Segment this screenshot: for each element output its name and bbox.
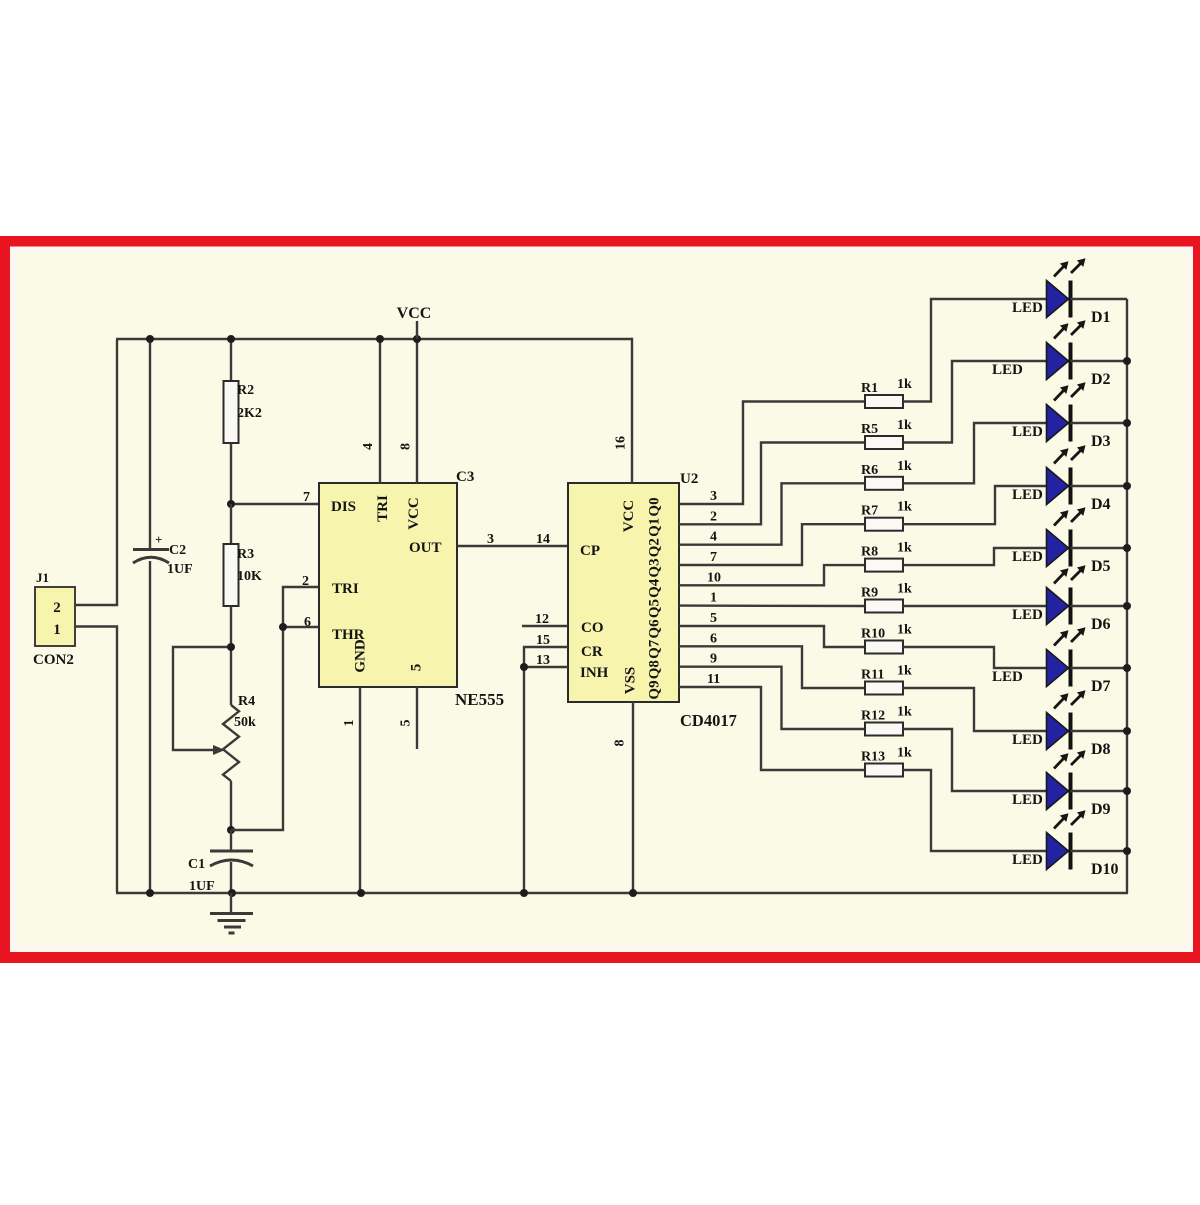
svg-text:D5: D5 bbox=[1091, 558, 1111, 575]
svg-text:R10: R10 bbox=[861, 627, 885, 642]
wire J1 pin 2 to VCC rail bbox=[75, 340, 117, 605]
svg-text:CO: CO bbox=[581, 620, 604, 636]
wire R5 to LED D2 bbox=[903, 361, 1047, 443]
resistor R8 1k bbox=[861, 541, 912, 572]
junction ground rail / CR-INH wire bbox=[520, 889, 528, 897]
svg-text:1k: 1k bbox=[897, 664, 912, 679]
decade counter IC U2 CD4017 bbox=[568, 471, 737, 730]
svg-text:Q9: Q9 bbox=[647, 680, 663, 699]
svg-text:R1: R1 bbox=[861, 381, 878, 396]
wire CD4017 pin to R8 bbox=[679, 565, 865, 585]
junction VCC rail / R2 bbox=[227, 335, 235, 343]
svg-text:J1: J1 bbox=[36, 570, 49, 585]
svg-text:LED: LED bbox=[1012, 424, 1043, 440]
wire R9 to LED D6 bbox=[903, 605, 1047, 607]
resistor R6 1k bbox=[861, 459, 912, 490]
svg-text:Q1: Q1 bbox=[647, 518, 663, 537]
VCC rail (top horizontal bus wire) bbox=[116, 338, 632, 340]
junction cathode bus / LED D7 bbox=[1123, 664, 1131, 672]
svg-text:1k: 1k bbox=[897, 582, 912, 597]
timer IC NE555 (designator C3) bbox=[319, 469, 504, 709]
resistor R1 1k bbox=[861, 377, 912, 408]
svg-text:1k: 1k bbox=[897, 705, 912, 720]
svg-text:2: 2 bbox=[53, 600, 61, 616]
svg-text:9: 9 bbox=[710, 652, 717, 667]
svg-text:R11: R11 bbox=[861, 668, 884, 683]
LED D5 bbox=[1012, 507, 1127, 575]
wire CD4017 pin to R12 bbox=[679, 667, 865, 729]
svg-text:D1: D1 bbox=[1091, 309, 1111, 326]
svg-text:1k: 1k bbox=[897, 377, 912, 392]
wire CD4017 pin 16 to VCC rail bbox=[631, 339, 632, 483]
junction cathode bus / LED D10 bbox=[1123, 847, 1131, 855]
svg-text:2: 2 bbox=[302, 574, 309, 589]
svg-text:R8: R8 bbox=[861, 545, 878, 560]
svg-text:VSS: VSS bbox=[623, 667, 639, 695]
pin number 2 (Q1) bbox=[710, 509, 717, 524]
svg-text:LED: LED bbox=[1012, 852, 1043, 868]
LED D7 bbox=[992, 627, 1127, 695]
svg-text:3: 3 bbox=[710, 489, 717, 504]
pin number 3 (OUT) bbox=[487, 532, 494, 547]
junction R3 / R4 / wiper bbox=[227, 643, 235, 651]
pin number 1 bbox=[342, 720, 357, 727]
svg-text:VCC: VCC bbox=[397, 305, 432, 322]
wire NE555 OUT pin 3 to CD4017 CP pin 14 bbox=[457, 545, 568, 547]
pin number 13 (INH) bbox=[536, 653, 550, 668]
svg-text:2: 2 bbox=[710, 509, 717, 524]
svg-text:R2: R2 bbox=[237, 383, 254, 398]
pin number 9 (Q8) bbox=[710, 652, 717, 667]
pin number 10 (Q4) bbox=[707, 570, 721, 585]
svg-text:5: 5 bbox=[409, 664, 425, 672]
svg-text:R4: R4 bbox=[238, 694, 255, 709]
svg-text:1k: 1k bbox=[897, 746, 912, 761]
wire NE555 pin 4 to VCC rail bbox=[379, 339, 381, 483]
svg-text:TRI: TRI bbox=[332, 581, 359, 597]
pin number 5 (Q6) bbox=[710, 611, 717, 626]
svg-text:13: 13 bbox=[536, 653, 550, 668]
svg-text:CON2: CON2 bbox=[33, 652, 74, 668]
wire CD4017 pin to R11 bbox=[679, 646, 865, 688]
junction VCC rail / C2 bbox=[146, 335, 154, 343]
svg-text:DIS: DIS bbox=[331, 499, 356, 515]
wire R2-R3 node to NE555 DIS pin 7 bbox=[231, 503, 319, 505]
svg-text:Q0: Q0 bbox=[647, 497, 663, 516]
wire CD4017 pin to R6 bbox=[679, 483, 865, 544]
junction ground rail / C1 / ground symbol bbox=[228, 889, 236, 897]
svg-text:C2: C2 bbox=[169, 543, 186, 558]
svg-text:D10: D10 bbox=[1091, 861, 1119, 878]
svg-text:LED: LED bbox=[1012, 732, 1043, 748]
wire CD4017 pin to R13 bbox=[679, 687, 865, 770]
svg-text:D9: D9 bbox=[1091, 801, 1111, 818]
svg-text:LED: LED bbox=[1012, 607, 1043, 623]
junction cathode bus / LED D4 bbox=[1123, 482, 1131, 490]
svg-text:R6: R6 bbox=[861, 463, 878, 478]
junction R4 / C1 / THR net bbox=[227, 826, 235, 834]
resistor R5 1k bbox=[861, 418, 912, 449]
junction cathode bus / LED D8 bbox=[1123, 727, 1131, 735]
wire R6 to LED D3 bbox=[903, 423, 1047, 483]
wire CD4017 pin to R1 bbox=[679, 402, 865, 505]
resistor R11 1k bbox=[861, 664, 912, 695]
svg-text:4: 4 bbox=[710, 530, 717, 545]
svg-text:Q7: Q7 bbox=[647, 639, 663, 659]
wire R13 to LED D10 bbox=[903, 770, 1047, 851]
svg-text:1k: 1k bbox=[897, 541, 912, 556]
resistor R2 2K2 (vertical) bbox=[224, 339, 262, 504]
wire NE555 pin 8 to VCC rail bbox=[416, 339, 418, 483]
capacitor C2 1UF (polarized, across supply) bbox=[133, 339, 193, 893]
junction INH wire bbox=[520, 663, 528, 671]
pin number 7 (DIS) bbox=[303, 490, 310, 505]
pin number 5 bbox=[399, 720, 414, 727]
svg-text:GND: GND bbox=[353, 639, 369, 673]
svg-text:R13: R13 bbox=[861, 750, 885, 765]
connector J1 CON2 bbox=[33, 570, 75, 668]
pin number 4 (Q2) bbox=[710, 530, 717, 545]
CD4017 CO pin 12 stub bbox=[522, 625, 568, 627]
svg-text:7: 7 bbox=[710, 550, 717, 565]
svg-text:4: 4 bbox=[361, 443, 376, 450]
svg-text:6: 6 bbox=[304, 615, 311, 630]
svg-text:8: 8 bbox=[613, 740, 628, 747]
pin number 3 (Q0) bbox=[710, 489, 717, 504]
pin number 16 bbox=[614, 436, 629, 450]
svg-text:1k: 1k bbox=[897, 459, 912, 474]
ground rail (bottom horizontal bus wire) bbox=[116, 892, 1128, 894]
svg-text:OUT: OUT bbox=[409, 540, 442, 556]
svg-text:10K: 10K bbox=[237, 569, 262, 584]
wire R11 to LED D8 bbox=[903, 688, 1047, 731]
wire J1 pin 1 to ground rail bbox=[75, 627, 117, 893]
resistor R10 1k bbox=[861, 623, 912, 654]
LED D3 bbox=[1012, 382, 1127, 450]
potentiometer R4 50k (zigzag with wiper) bbox=[173, 647, 256, 830]
LED D2 bbox=[992, 320, 1127, 388]
pin number 6 (Q7) bbox=[710, 631, 717, 646]
wire CD4017 VSS pin 8 to ground rail bbox=[632, 702, 634, 893]
LED cathode bus (right vertical wire to ground rail) bbox=[1126, 299, 1128, 893]
LED D8 bbox=[1012, 690, 1127, 758]
svg-text:1: 1 bbox=[342, 720, 357, 727]
pin number 8 (VSS) bbox=[613, 740, 628, 747]
svg-text:11: 11 bbox=[707, 672, 720, 687]
pin number 15 (CR) bbox=[536, 633, 550, 648]
junction ground rail / C2 bbox=[146, 889, 154, 897]
wire CD4017 pin to R5 bbox=[679, 443, 865, 525]
junction cathode bus / LED D2 bbox=[1123, 357, 1131, 365]
svg-text:Q6: Q6 bbox=[647, 619, 663, 639]
wire CD4017 pin to R9 bbox=[679, 604, 865, 607]
svg-text:NE555: NE555 bbox=[455, 690, 504, 709]
svg-text:LED: LED bbox=[1012, 487, 1043, 503]
junction cathode bus / LED D9 bbox=[1123, 787, 1131, 795]
svg-text:15: 15 bbox=[536, 633, 550, 648]
svg-text:+: + bbox=[155, 532, 162, 547]
wire CD4017 pin to R10 bbox=[679, 626, 865, 647]
svg-text:LED: LED bbox=[992, 669, 1023, 685]
svg-text:D6: D6 bbox=[1091, 616, 1111, 633]
capacitor C1 1UF bbox=[188, 830, 253, 894]
resistor R7 1k bbox=[861, 500, 912, 531]
svg-text:R12: R12 bbox=[861, 709, 885, 724]
wire R7 to LED D4 bbox=[903, 486, 1047, 524]
svg-text:50k: 50k bbox=[234, 715, 256, 730]
svg-text:LED: LED bbox=[1012, 792, 1043, 808]
svg-text:1k: 1k bbox=[897, 623, 912, 638]
svg-text:D7: D7 bbox=[1091, 678, 1111, 695]
svg-text:TRI: TRI bbox=[375, 495, 391, 522]
pin number 1 (Q5) bbox=[710, 591, 717, 606]
svg-text:LED: LED bbox=[1012, 300, 1043, 316]
svg-text:CR: CR bbox=[581, 644, 603, 660]
pin number 8 bbox=[399, 443, 414, 450]
pin number 6 (THR) bbox=[304, 615, 311, 630]
ground symbol bbox=[210, 893, 253, 933]
svg-text:2K2: 2K2 bbox=[237, 406, 262, 421]
svg-text:1: 1 bbox=[710, 591, 717, 606]
LED D4 bbox=[1012, 445, 1127, 513]
junction cathode bus / LED D6 bbox=[1123, 602, 1131, 610]
svg-text:C1: C1 bbox=[188, 857, 205, 872]
junction R2 / R3 / DIS bbox=[227, 500, 235, 508]
svg-text:CP: CP bbox=[580, 543, 600, 559]
svg-text:1UF: 1UF bbox=[167, 562, 193, 577]
svg-text:D8: D8 bbox=[1091, 741, 1111, 758]
NE555 pin 5 stub bbox=[416, 687, 418, 749]
svg-text:Q2: Q2 bbox=[647, 538, 663, 557]
pin number 14 (CP) bbox=[536, 532, 550, 547]
resistor R3 10K (vertical) bbox=[224, 504, 263, 647]
svg-text:12: 12 bbox=[535, 612, 549, 627]
svg-text:5: 5 bbox=[710, 611, 717, 626]
wire R10 to LED D7 bbox=[903, 647, 1047, 668]
svg-text:CD4017: CD4017 bbox=[680, 711, 737, 730]
wire R12 to LED D9 bbox=[903, 729, 1047, 791]
svg-text:6: 6 bbox=[710, 631, 717, 646]
VCC power symbol bbox=[397, 305, 432, 339]
wire NE555 GND pin 1 to ground rail bbox=[359, 687, 361, 893]
svg-text:14: 14 bbox=[536, 532, 550, 547]
pin number 11 (Q9) bbox=[707, 672, 720, 687]
junction VCC rail / pin 8 bbox=[413, 335, 421, 343]
svg-text:16: 16 bbox=[614, 436, 629, 450]
svg-text:LED: LED bbox=[992, 362, 1023, 378]
svg-text:Q4: Q4 bbox=[647, 578, 663, 598]
svg-text:1k: 1k bbox=[897, 500, 912, 515]
svg-text:1: 1 bbox=[53, 622, 61, 638]
resistor R12 1k bbox=[861, 705, 912, 736]
svg-text:VCC: VCC bbox=[406, 497, 422, 530]
junction ground rail / GND pin 1 bbox=[357, 889, 365, 897]
svg-text:Q8: Q8 bbox=[647, 660, 663, 679]
LED D6 bbox=[1012, 565, 1127, 633]
wire CD4017 pin to R7 bbox=[679, 524, 865, 565]
svg-text:R5: R5 bbox=[861, 422, 878, 437]
pin number 12 (CO) bbox=[535, 612, 549, 627]
junction cathode bus / LED D3 bbox=[1123, 419, 1131, 427]
pin number 7 (Q3) bbox=[710, 550, 717, 565]
pin number 2 (TRI) bbox=[302, 574, 309, 589]
wire R1 to LED D1 bbox=[903, 299, 1047, 402]
wire R8 to LED D5 bbox=[903, 548, 1047, 565]
wire NE555 TRI pin 2 / THR pin 6 to R4-C1 node bbox=[231, 587, 319, 830]
svg-text:3: 3 bbox=[487, 532, 494, 547]
svg-text:R3: R3 bbox=[237, 547, 254, 562]
LED D1 bbox=[1012, 258, 1127, 326]
LED D9 bbox=[1012, 750, 1127, 818]
svg-text:U2: U2 bbox=[680, 471, 698, 487]
svg-text:1UF: 1UF bbox=[189, 879, 215, 894]
svg-text:D4: D4 bbox=[1091, 496, 1111, 513]
svg-text:5: 5 bbox=[399, 720, 414, 727]
junction VCC rail / pin 4 bbox=[376, 335, 384, 343]
svg-text:Q3: Q3 bbox=[647, 558, 663, 577]
svg-text:VCC: VCC bbox=[621, 500, 637, 533]
svg-text:D3: D3 bbox=[1091, 433, 1111, 450]
svg-text:8: 8 bbox=[399, 443, 414, 450]
svg-text:10: 10 bbox=[707, 570, 721, 585]
wire CD4017 CR pin 15 / INH pin 13 to ground rail bbox=[524, 647, 568, 893]
svg-text:R9: R9 bbox=[861, 586, 878, 601]
svg-text:Q5: Q5 bbox=[647, 599, 663, 618]
junction THR wire bbox=[279, 623, 287, 631]
svg-text:R7: R7 bbox=[861, 504, 878, 519]
resistor R9 1k bbox=[861, 582, 912, 613]
svg-text:C3: C3 bbox=[456, 469, 474, 485]
svg-text:7: 7 bbox=[303, 490, 310, 505]
junction cathode bus / LED D5 bbox=[1123, 544, 1131, 552]
LED D10 bbox=[1012, 810, 1127, 878]
svg-text:1k: 1k bbox=[897, 418, 912, 433]
junction ground rail / VSS bbox=[629, 889, 637, 897]
svg-text:LED: LED bbox=[1012, 549, 1043, 565]
pin number 4 bbox=[361, 443, 376, 450]
resistor R13 1k bbox=[861, 746, 912, 777]
svg-text:INH: INH bbox=[580, 665, 609, 681]
svg-text:D2: D2 bbox=[1091, 371, 1111, 388]
